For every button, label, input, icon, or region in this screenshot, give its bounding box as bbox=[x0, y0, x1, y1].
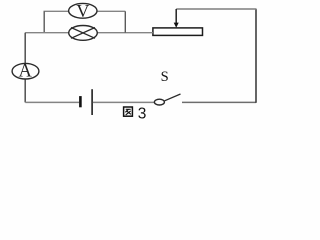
wire top-left vertical bbox=[43, 11, 45, 32]
svg-text:3: 3 bbox=[138, 105, 147, 122]
ammeter A1 bbox=[12, 62, 39, 82]
switch S blade bbox=[165, 94, 181, 101]
svg-text:S: S bbox=[161, 69, 169, 85]
svg-text:V: V bbox=[76, 1, 89, 21]
wire switch to right corner bbox=[182, 101, 256, 103]
wire battery to switch bbox=[93, 101, 154, 103]
switch S pivot bbox=[154, 99, 164, 105]
voltmeter U1 bbox=[69, 1, 97, 21]
label 图 (drawn glyph) bbox=[124, 107, 133, 116]
rheostat slider arrow bbox=[174, 9, 179, 28]
wire parallel-join vertical bbox=[124, 11, 126, 32]
wire lamp-left horizontal bbox=[25, 32, 69, 34]
wire left vertical lower bbox=[24, 79, 26, 103]
battery negative short plate bbox=[79, 96, 82, 107]
wire top-left horizontal to voltmeter bbox=[44, 10, 70, 12]
wire left vertical upper bbox=[24, 33, 26, 64]
wire lamp-right to rheostat bbox=[97, 32, 152, 34]
wire voltmeter-right horizontal bbox=[97, 10, 126, 12]
wire top-right horizontal bbox=[176, 8, 256, 10]
svg-text:A: A bbox=[19, 62, 33, 82]
battery positive long plate bbox=[91, 89, 93, 115]
wire bottom to battery bbox=[25, 101, 79, 103]
lamp L1 bbox=[69, 26, 98, 41]
wire right vertical bbox=[255, 9, 257, 103]
rheostat R box bbox=[153, 28, 203, 36]
